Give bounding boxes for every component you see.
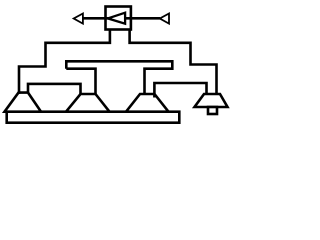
busbar B1 (hollow bus with two drop legs) (66, 61, 172, 95)
wire tap T3 to bell (154, 83, 206, 98)
equipment enclosure (big rectangle on bar) (28, 84, 81, 112)
amplifier U1 (box) (106, 7, 131, 30)
transformer T1 (left trapezoid) (5, 93, 42, 112)
arrowhead right (open) (160, 14, 169, 24)
amplifier U1 triangle (108, 13, 125, 24)
busbar B2 (bottom ground bar) (7, 112, 180, 123)
horn H1 (bell symbol, right) (195, 94, 228, 107)
wire left branch (shoulder to T1) (19, 28, 110, 94)
signal line through amplifier (83, 17, 161, 20)
transformer T3 (right trapezoid) (126, 94, 169, 112)
horn H1 base stub (208, 107, 217, 114)
arrowhead left (open) (74, 14, 83, 24)
transformer T2 (middle trapezoid) (66, 94, 110, 112)
wire right branch (shoulder to bell) (130, 28, 217, 95)
